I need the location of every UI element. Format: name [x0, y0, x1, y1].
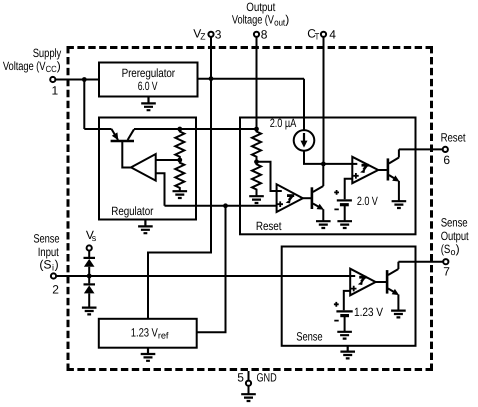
svg-text:T: T — [315, 32, 320, 42]
ground below Preregulator — [141, 97, 156, 111]
node reset divider tap — [254, 159, 259, 164]
svg-text:1.23 V: 1.23 V — [131, 325, 158, 339]
node CT junction — [321, 162, 326, 167]
svg-text:Voltage (V: Voltage (V — [232, 13, 274, 27]
wire current source to CT node — [304, 151, 323, 164]
resistor R4 (reset divider lower) — [252, 162, 261, 196]
svg-text:1: 1 — [52, 84, 59, 98]
wire comparator output to Q2 — [303, 197, 311, 199]
pin 3 Vz — [193, 27, 221, 42]
svg-text:1.23 V: 1.23 V — [354, 305, 383, 319]
pin 6 Reset — [441, 130, 467, 167]
svg-text:7: 7 — [443, 264, 450, 278]
diode D2 (clamp to GND) — [84, 276, 96, 307]
pin 5 GND — [237, 370, 277, 394]
node divider tap — [177, 158, 182, 163]
svg-text:): ) — [55, 258, 59, 272]
node Vs clamp junction — [87, 274, 92, 279]
wire Sense input pin2 rail — [56, 275, 351, 277]
op-amp U1 (regulator error amp) — [131, 154, 180, 206]
svg-text:Supply: Supply — [33, 46, 62, 60]
svg-text:Z: Z — [200, 32, 206, 42]
svg-text:): ) — [456, 242, 460, 256]
ground below Q2 — [316, 221, 331, 228]
1.23 Vref block — [99, 319, 197, 348]
wire CT pin4 down to comparator node — [323, 37, 325, 164]
svg-text:CC: CC — [46, 64, 58, 74]
node Vout-divider junction — [254, 127, 259, 132]
ground below Q4 — [391, 311, 406, 318]
ground below Q3 — [392, 201, 407, 208]
svg-text:Sense: Sense — [441, 215, 468, 229]
wire pin1 Vcc to Preregulator — [55, 79, 99, 81]
svg-text:Output: Output — [441, 229, 469, 243]
ground below D2 — [82, 308, 97, 315]
Preregulator block — [99, 63, 198, 97]
ground below B1 — [337, 221, 352, 228]
wire regulator collector to divider — [134, 128, 257, 130]
svg-text:): ) — [285, 13, 289, 27]
op-amp U3 (reset output comparator) — [352, 157, 378, 183]
node ref rail junction — [223, 203, 228, 208]
svg-text:Reset: Reset — [441, 130, 467, 144]
svg-text:3: 3 — [215, 28, 222, 42]
svg-text:Regulator: Regulator — [111, 204, 153, 218]
wire Q3 collector to Reset pin6 — [399, 148, 443, 150]
wire U3 output to Q3 — [378, 169, 387, 171]
node Vz junction — [209, 76, 214, 81]
node junction at pin1 feed — [82, 77, 87, 82]
wire Vz pin3 down to 1.23 Vref input — [148, 37, 211, 319]
svg-text:Voltage (V: Voltage (V — [3, 59, 46, 73]
ground below Regulator block — [138, 220, 153, 234]
node divider top — [177, 127, 182, 132]
svg-text:out: out — [274, 18, 286, 28]
ground below Sense box — [340, 346, 355, 359]
resistor R2 (regulator divider lower) — [175, 160, 184, 191]
Regulator block — [99, 118, 196, 220]
svg-text:s: s — [92, 233, 97, 243]
pin 4 CT — [307, 27, 336, 42]
transistor Q4 NPN (sense output) — [387, 262, 399, 311]
pin 8 Output Voltage — [232, 0, 289, 42]
diode D1 (clamp to Vs) — [84, 258, 96, 276]
svg-text:6.0 V: 6.0 V — [138, 79, 158, 93]
svg-text:GND: GND — [257, 370, 277, 384]
wire Q4 collector to Sense Output pin7 — [398, 261, 443, 263]
svg-text:5: 5 — [237, 370, 244, 384]
transistor Q3 NPN (reset output) — [388, 149, 400, 201]
ground below Vref block — [141, 348, 156, 361]
ground below R2 — [173, 191, 188, 198]
wire CT node to second comparator — [323, 163, 353, 165]
svg-text:Reset: Reset — [256, 219, 282, 233]
wire divider tap to reset comparator — [257, 162, 278, 191]
op-amp U2 (reset comparator) — [277, 184, 303, 212]
svg-text:Sense: Sense — [296, 330, 323, 344]
wire Vref output riser — [197, 206, 226, 332]
resistor R3 (reset divider upper) — [252, 129, 261, 162]
svg-text:8: 8 — [261, 28, 268, 42]
svg-text:(S: (S — [441, 242, 451, 256]
op-amp U4 (sense comparator) — [350, 269, 375, 296]
Sense block box — [282, 247, 416, 346]
ground below B2 — [337, 332, 352, 339]
svg-text:6: 6 — [443, 153, 450, 167]
wire Preregulator output to Vz and current source — [198, 79, 305, 131]
wire U4 output to Q4 — [376, 281, 387, 283]
ground below pin 5 — [241, 394, 256, 401]
pin 1 Supply Voltage — [3, 46, 61, 98]
battery B2 1.23 V — [334, 302, 383, 332]
ground below R4 — [249, 196, 264, 203]
battery B1 2.0 V — [334, 190, 378, 221]
pin Vs — [86, 228, 97, 257]
wire U4 + input to 1.23V battery — [344, 291, 350, 310]
transistor Q1 PNP pass (regulator) — [111, 129, 134, 168]
transistor Q2 NPN (CT discharge) — [312, 164, 324, 221]
resistor R1 (regulator divider upper) — [175, 129, 184, 160]
svg-text:2: 2 — [52, 282, 59, 296]
wire Vout pin8 down to divider — [256, 37, 258, 132]
current source I1 2.0 uA — [270, 116, 315, 151]
svg-text:): ) — [57, 59, 61, 73]
svg-text:2.0 V: 2.0 V — [357, 194, 378, 208]
svg-text:ref: ref — [158, 330, 169, 340]
svg-text:4: 4 — [329, 28, 336, 42]
svg-text:2.0 µA: 2.0 µA — [270, 116, 297, 130]
pin 2 Sense Input — [33, 232, 59, 297]
outer dashed IC boundary — [67, 46, 434, 371]
wire comparator + to 2.0V battery — [345, 179, 353, 200]
svg-text:(S: (S — [39, 258, 51, 272]
wire 1.23V reference rail — [165, 205, 277, 207]
Reset block box — [240, 118, 416, 235]
wire Vcc down to Regulator emitter — [84, 80, 111, 130]
svg-text:Sense: Sense — [33, 232, 59, 246]
pin 7 Sense Output — [441, 215, 469, 278]
